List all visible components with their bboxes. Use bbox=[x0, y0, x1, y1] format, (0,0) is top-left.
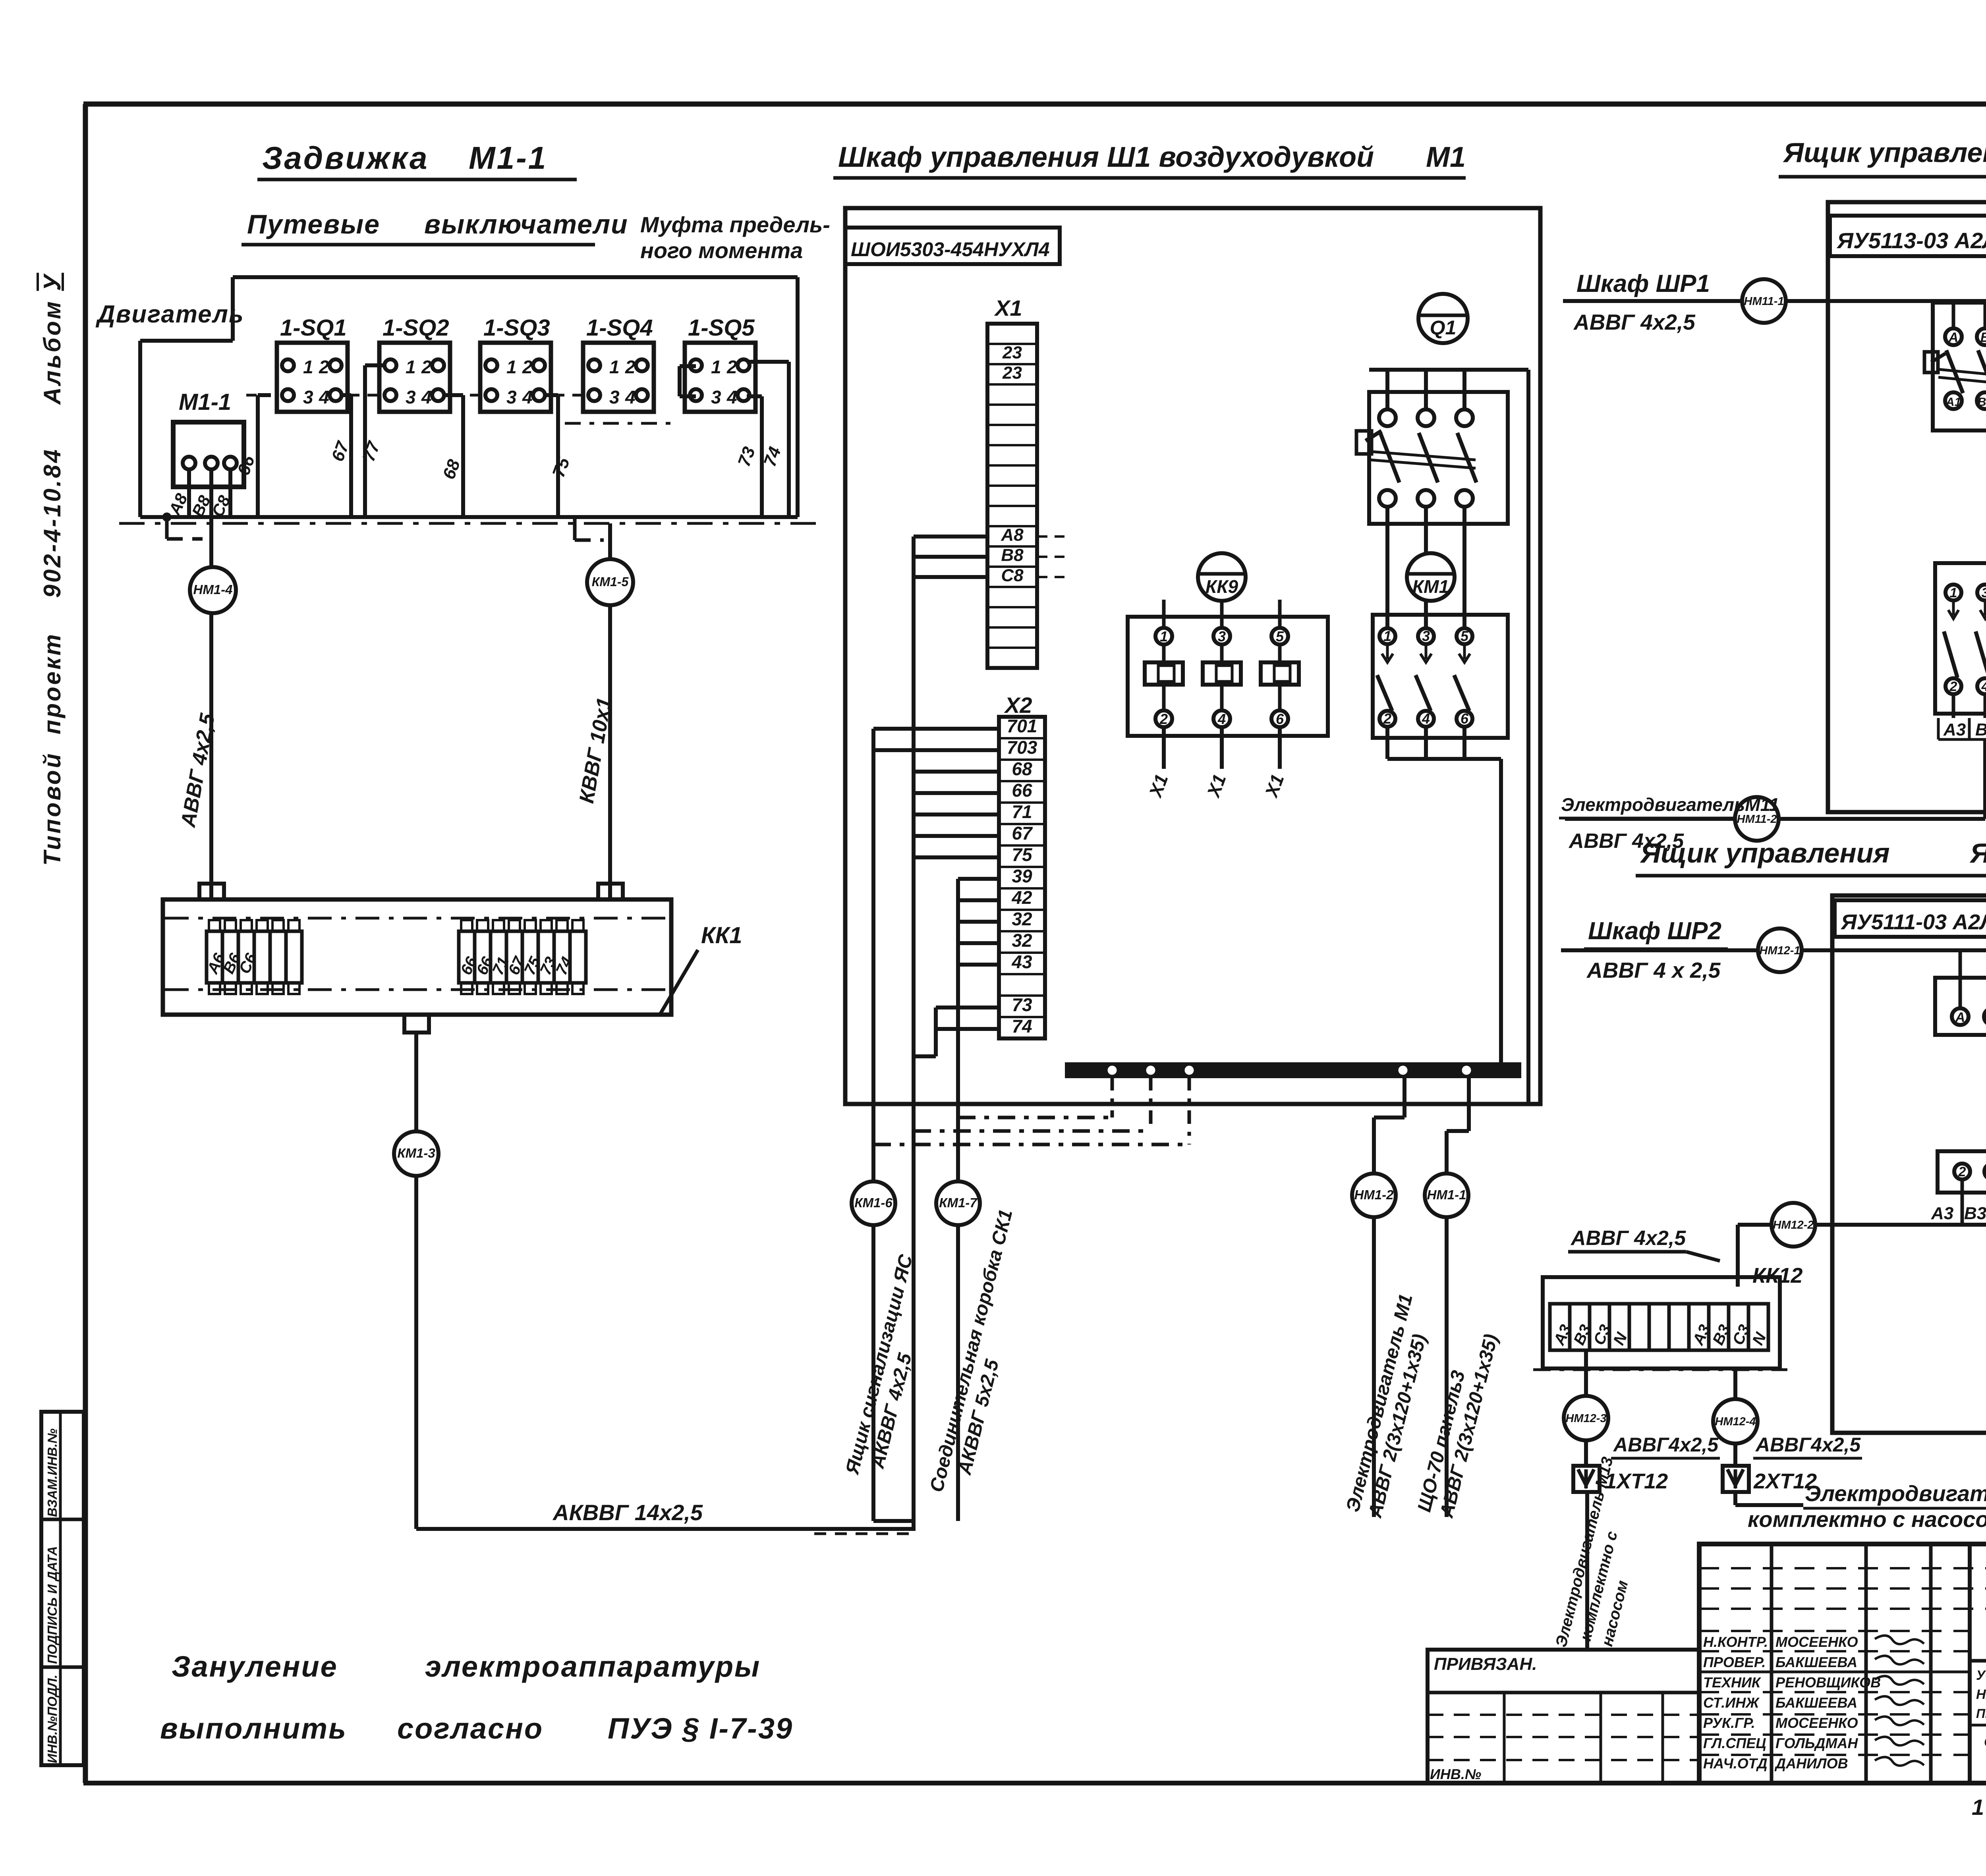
wire B8 / KM1-4 drop bbox=[209, 469, 213, 899]
cable marker KM1-3 bbox=[414, 1033, 418, 1529]
svg-text:2: 2 bbox=[421, 357, 432, 377]
thermal relay KK9 box bbox=[1128, 617, 1328, 736]
svg-text:Зануление: Зануление bbox=[172, 1650, 338, 1683]
svg-text:ПРОВЕР.: ПРОВЕР. bbox=[1703, 1654, 1766, 1670]
svg-text:2: 2 bbox=[1159, 711, 1168, 727]
KM pole 2 bbox=[1977, 585, 1986, 600]
svg-text:32: 32 bbox=[1012, 930, 1032, 951]
svg-text:электроаппаратуры: электроаппаратуры bbox=[425, 1650, 761, 1683]
privyazan box bbox=[1428, 1650, 1699, 1783]
svg-text:32: 32 bbox=[1012, 909, 1032, 929]
svg-text:М1-1: М1-1 bbox=[179, 389, 231, 415]
wire C8 bbox=[228, 469, 232, 515]
svg-text:Ящик управления: Ящик управления bbox=[1783, 137, 1986, 168]
svg-text:1: 1 bbox=[1160, 628, 1168, 645]
svg-text:С8: С8 bbox=[1001, 566, 1024, 585]
svg-text:1-SQ1: 1-SQ1 bbox=[280, 315, 347, 341]
svg-text:ГЛ.СПЕЦ: ГЛ.СПЕЦ bbox=[1703, 1735, 1766, 1751]
svg-text:5: 5 bbox=[1276, 628, 1284, 645]
wire 75 bbox=[545, 393, 558, 397]
wire to Электродвигатель М12 bbox=[1733, 1492, 1737, 1505]
svg-text:4: 4 bbox=[421, 387, 432, 407]
svg-text:НМ12-3: НМ12-3 bbox=[1565, 1412, 1606, 1425]
svg-text:1: 1 bbox=[1383, 628, 1391, 644]
svg-text:Путевые: Путевые bbox=[247, 209, 380, 239]
wire: top bus of limit-switch loop bbox=[233, 275, 798, 279]
vertical control-cable wire bbox=[912, 537, 916, 1529]
X2 incoming wires bbox=[873, 727, 999, 731]
svg-text:1-SQ3: 1-SQ3 bbox=[483, 315, 550, 341]
svg-text:Я12: Я12 bbox=[1969, 838, 1986, 869]
contactor KM1 box bbox=[1373, 615, 1508, 738]
svg-text:2: 2 bbox=[319, 357, 329, 377]
type label ЯУ5113-03А2Л bbox=[1830, 216, 1986, 256]
svg-text:РЕНОВЩИКОВ: РЕНОВЩИКОВ bbox=[1775, 1674, 1881, 1691]
type label ЯУ5111-03А2Л bbox=[1835, 900, 1986, 937]
svg-text:4: 4 bbox=[726, 387, 737, 407]
KM contact box bbox=[1935, 563, 1986, 714]
wire: bottom bus (solid) bbox=[140, 515, 798, 519]
left stamp column boxes bbox=[41, 1412, 84, 1765]
svg-text:3: 3 bbox=[406, 387, 416, 407]
cable markers below cabinet bbox=[852, 1181, 895, 1225]
svg-text:РУК.ГР.: РУК.ГР. bbox=[1703, 1715, 1755, 1731]
svg-text:1-SQ4: 1-SQ4 bbox=[586, 315, 653, 341]
svg-text:ТЕХНИК: ТЕХНИК bbox=[1703, 1674, 1762, 1691]
svg-text:БАКШЕЕВА: БАКШЕЕВА bbox=[1775, 1695, 1857, 1711]
control box YA12 outline bbox=[1832, 896, 1986, 1433]
svg-text:Шкаф ШР1: Шкаф ШР1 bbox=[1576, 270, 1710, 297]
svg-text:Н.КОНТР.: Н.КОНТР. bbox=[1703, 1634, 1768, 1650]
svg-text:ЯУ5111-03 А2Л: ЯУ5111-03 А2Л bbox=[1840, 910, 1986, 934]
drawing frame border bbox=[83, 104, 88, 1783]
left vertical wires in cabinet bbox=[871, 729, 875, 1521]
svg-text:Х1: Х1 bbox=[994, 295, 1022, 320]
svg-text:ГОЛЬДМАН: ГОЛЬДМАН bbox=[1775, 1735, 1858, 1751]
svg-text:комплектно с насосом: комплектно с насосом bbox=[1748, 1507, 1986, 1532]
svg-text:В3: В3 bbox=[1975, 720, 1986, 739]
svg-text:Ящик управления: Ящик управления bbox=[1640, 838, 1890, 869]
svg-text:ного момента: ного момента bbox=[640, 238, 803, 263]
svg-text:1: 1 bbox=[711, 357, 721, 377]
KM pole 1 bbox=[1945, 585, 1961, 600]
svg-text:4: 4 bbox=[625, 387, 636, 407]
KK9 pole 3 bbox=[1271, 628, 1288, 645]
KM box YA12 bbox=[1938, 1151, 1986, 1193]
svg-text:Задвижка: Задвижка bbox=[262, 140, 429, 176]
1-SQ5 left jumper bbox=[680, 364, 696, 368]
control box YA11 outline bbox=[1828, 202, 1986, 812]
svg-text:ПРИВЯЗАН.: ПРИВЯЗАН. bbox=[1434, 1654, 1537, 1674]
cabinet Ш1 outline bbox=[845, 208, 1540, 1104]
Q1 wires to top bus bbox=[1369, 368, 1528, 372]
svg-text:Х2: Х2 bbox=[1004, 693, 1032, 718]
svg-text:А8: А8 bbox=[1001, 525, 1024, 545]
Q1 poles bbox=[1379, 409, 1396, 426]
svg-text:Муфта предель-: Муфта предель- bbox=[640, 212, 830, 237]
mechanical coupling dashes bbox=[349, 394, 378, 397]
svg-text:3: 3 bbox=[303, 387, 313, 407]
svg-text:КМ1-5: КМ1-5 bbox=[592, 575, 629, 589]
QF box YA12 bbox=[1935, 978, 1986, 1035]
KK1 bottom tab bbox=[404, 1015, 429, 1033]
svg-text:В3: В3 bbox=[1964, 1204, 1986, 1223]
connector 2ХТ12 bbox=[1723, 1466, 1749, 1492]
wire 73 bbox=[747, 394, 762, 398]
svg-text:42: 42 bbox=[1011, 887, 1032, 908]
svg-text:ПУЭ § I-7-39: ПУЭ § I-7-39 bbox=[608, 1712, 793, 1745]
cable run АКВВГ 14х2,5 bbox=[416, 1527, 916, 1531]
project name cell bbox=[1970, 1659, 1986, 1663]
svg-text:АВВГ 4х2,5: АВВГ 4х2,5 bbox=[1573, 310, 1696, 334]
svg-text:Двигатель: Двигатель bbox=[95, 301, 244, 328]
svg-text:НА КАРКАСНО-ЗАСЫПНЫХ ФИЛЬТРАХ: НА КАРКАСНО-ЗАСЫПНЫХ ФИЛЬТРАХ bbox=[1976, 1687, 1986, 1702]
QF linkage bar bbox=[1938, 369, 1986, 378]
svg-text:75: 75 bbox=[1012, 844, 1033, 865]
svg-text:КМ1-7: КМ1-7 bbox=[939, 1195, 978, 1210]
wire: bottom bus (dash-dot shield) bbox=[119, 522, 818, 525]
svg-text:4: 4 bbox=[522, 387, 533, 407]
svg-text:Шкаф управления Ш1 воздуходувк: Шкаф управления Ш1 воздуходувкой bbox=[838, 141, 1374, 173]
svg-text:выполнить: выполнить bbox=[160, 1712, 347, 1745]
svg-text:АКВВГ 14х2,5: АКВВГ 14х2,5 bbox=[552, 1500, 703, 1525]
svg-text:СХЕМА ЭЛЕКТРИЧЕСКАЯ СОЕДИНЕНИЙ: СХЕМА ЭЛЕКТРИЧЕСКАЯ СОЕДИНЕНИЙ bbox=[1984, 1734, 1986, 1750]
svg-text:А3: А3 bbox=[1943, 720, 1966, 739]
KK1 left terminal group bbox=[207, 931, 222, 983]
svg-text:5: 5 bbox=[1461, 628, 1469, 644]
svg-text:КМ1-3: КМ1-3 bbox=[397, 1146, 435, 1160]
wire 67 bbox=[342, 393, 351, 397]
svg-text:М1-1: М1-1 bbox=[469, 140, 547, 176]
svg-text:2: 2 bbox=[522, 357, 533, 377]
svg-text:ИНВ.№: ИНВ.№ bbox=[1430, 1766, 1481, 1782]
svg-text:1-SQ2: 1-SQ2 bbox=[383, 315, 449, 341]
svg-text:ЭлектродвигательМ11: ЭлектродвигательМ11 bbox=[1561, 794, 1779, 815]
wire from КМ12-2 to KK12 bbox=[1738, 1223, 1772, 1227]
thermal junction box KK1 bbox=[163, 899, 671, 1015]
svg-text:703: 703 bbox=[1007, 737, 1037, 758]
svg-text:39: 39 bbox=[1012, 866, 1032, 886]
svg-text:3: 3 bbox=[609, 387, 620, 407]
wire 66 bbox=[258, 393, 271, 397]
bottom jog connecting drops bbox=[873, 1519, 914, 1523]
grounding busbar bbox=[1066, 1063, 1520, 1077]
svg-text:НМ12-1: НМ12-1 bbox=[1759, 944, 1800, 957]
connector 1ХТ12 bbox=[1573, 1466, 1600, 1492]
svg-text:КК9: КК9 bbox=[1206, 576, 1238, 597]
wires Q1 to KM1 bbox=[1385, 507, 1389, 628]
svg-text:ПОДПИСЬ И ДАТА: ПОДПИСЬ И ДАТА bbox=[45, 1546, 60, 1664]
svg-text:ВЗАМ.ИНВ.№: ВЗАМ.ИНВ.№ bbox=[45, 1428, 60, 1517]
terminal strip X1 bbox=[987, 324, 1037, 668]
svg-text:В1: В1 bbox=[1978, 396, 1986, 409]
svg-text:КК1: КК1 bbox=[701, 923, 742, 948]
KM1 pole 1 bbox=[1379, 628, 1395, 644]
svg-text:1-SQ5: 1-SQ5 bbox=[688, 315, 755, 341]
svg-text:МОСЕЕНКО: МОСЕЕНКО bbox=[1775, 1715, 1858, 1731]
A3 B3 C3 labels bbox=[1952, 694, 1955, 718]
svg-text:3: 3 bbox=[1218, 628, 1226, 645]
M1-1 terminals A8 B8 C8 bbox=[183, 457, 195, 469]
svg-text:А3: А3 bbox=[1931, 1204, 1953, 1223]
svg-text:В8: В8 bbox=[1001, 546, 1024, 565]
KK1 right terminal group bbox=[459, 931, 475, 983]
svg-text:НМ1-2: НМ1-2 bbox=[1354, 1187, 1394, 1202]
svg-text:КМ1: КМ1 bbox=[1412, 576, 1449, 597]
QF pole В bbox=[1984, 301, 1986, 328]
QF pole А bbox=[1952, 301, 1955, 328]
svg-text:2: 2 bbox=[726, 357, 737, 377]
wire 68 bbox=[445, 393, 463, 397]
feeder wire into YA12 bbox=[1561, 948, 1986, 952]
svg-text:19995-03: 19995-03 bbox=[1972, 1795, 1986, 1820]
wire A8 bbox=[187, 469, 191, 515]
svg-text:3: 3 bbox=[711, 387, 721, 407]
svg-text:НМ12-2: НМ12-2 bbox=[1773, 1219, 1814, 1231]
svg-text:23: 23 bbox=[1002, 343, 1022, 363]
svg-text:701: 701 bbox=[1007, 716, 1037, 736]
X1 incoming wires А8 В8 С8 bbox=[914, 535, 987, 538]
svg-text:БАКШЕЕВА: БАКШЕЕВА bbox=[1775, 1654, 1857, 1670]
svg-text:Q1: Q1 bbox=[1430, 317, 1457, 339]
name rows bbox=[1699, 1671, 1970, 1673]
Q1 linkage bar bbox=[1370, 452, 1476, 460]
stub near KM1-5 bbox=[573, 517, 577, 540]
wire: right drop of loop bbox=[796, 277, 800, 517]
svg-text:68: 68 bbox=[1012, 759, 1032, 779]
svg-text:Шкаф ШР2: Шкаф ШР2 bbox=[1588, 917, 1721, 945]
svg-text:43: 43 bbox=[1011, 952, 1032, 972]
svg-text:3: 3 bbox=[1982, 585, 1986, 600]
svg-text:4: 4 bbox=[1217, 711, 1226, 727]
svg-text:согласно: согласно bbox=[397, 1712, 543, 1745]
wire: left step of loop bbox=[231, 277, 235, 341]
svg-text:4: 4 bbox=[1981, 679, 1986, 694]
KK9 pole 1 bbox=[1155, 628, 1172, 645]
svg-text:А1: А1 bbox=[1945, 396, 1961, 409]
title block vertical dividers bbox=[1770, 1544, 1773, 1783]
svg-text:1: 1 bbox=[303, 357, 313, 377]
title block outline bbox=[1699, 1544, 1986, 1783]
svg-text:23: 23 bbox=[1002, 363, 1022, 383]
svg-text:Типовой проект 902-4-10.84: Типовой проект 902-4-10.84 Альбом У bbox=[39, 273, 66, 866]
breaker Q1 symbol bbox=[1418, 294, 1468, 343]
svg-text:4: 4 bbox=[319, 387, 329, 407]
wire 74 bbox=[747, 360, 789, 364]
svg-text:АВВГ 4х2,5: АВВГ 4х2,5 bbox=[1570, 1227, 1686, 1250]
svg-text:ШОИ5303-454НУХЛ4: ШОИ5303-454НУХЛ4 bbox=[851, 238, 1050, 261]
svg-text:2: 2 bbox=[625, 357, 636, 377]
svg-text:2: 2 bbox=[1383, 710, 1391, 727]
svg-text:1: 1 bbox=[406, 357, 416, 377]
KM1 pole 2 bbox=[1418, 628, 1434, 644]
svg-text:74: 74 bbox=[1012, 1016, 1032, 1036]
motor wire to КН11-2 bbox=[1983, 739, 1986, 819]
svg-text:НМ1-4: НМ1-4 bbox=[193, 582, 232, 597]
title block top dashed rows bbox=[1699, 1567, 1986, 1569]
contactor KM1 symbol bbox=[1407, 553, 1455, 601]
svg-text:2: 2 bbox=[1958, 1164, 1966, 1179]
svg-text:1: 1 bbox=[609, 357, 620, 377]
junction on bus bbox=[162, 513, 171, 521]
svg-text:ЯУ5113-03 А2Л: ЯУ5113-03 А2Л bbox=[1836, 228, 1986, 253]
cable marker KM1-5 bbox=[608, 523, 612, 899]
feeder wire into YA11 bbox=[1563, 299, 1986, 303]
Q1 handle bbox=[1366, 431, 1381, 441]
svg-text:3: 3 bbox=[1422, 628, 1430, 644]
KK1 top cable tabs bbox=[199, 884, 224, 899]
cable marker KM1-4 bbox=[190, 567, 236, 613]
wire 77 bbox=[365, 363, 384, 367]
svg-text:В: В bbox=[1980, 330, 1986, 345]
thermal block KK12 bbox=[1543, 1277, 1780, 1368]
KM1 pole 3 bbox=[1457, 628, 1472, 644]
KK9 pole 2 bbox=[1213, 628, 1230, 645]
svg-text:73: 73 bbox=[1012, 994, 1032, 1015]
QF contact box bbox=[1933, 303, 1986, 430]
svg-text:ДАНИЛОВ: ДАНИЛОВ bbox=[1774, 1755, 1848, 1772]
cable markers НМ12-3 КМ12-4 bbox=[1584, 1350, 1588, 1466]
svg-text:1: 1 bbox=[506, 357, 517, 377]
svg-text:УСТАНОВКА ДООЧИСТКИ СТОЧНЫХ ВО: УСТАНОВКА ДООЧИСТКИ СТОЧНЫХ ВОД bbox=[1976, 1668, 1986, 1683]
svg-text:СТ.ИНЖ: СТ.ИНЖ bbox=[1703, 1695, 1760, 1711]
svg-text:КМ1-6: КМ1-6 bbox=[854, 1195, 893, 1210]
svg-text:АВВГ4х2,5: АВВГ4х2,5 bbox=[1613, 1434, 1719, 1456]
svg-text:6: 6 bbox=[1276, 711, 1284, 727]
svg-text:ИНВ.№ПОДЛ.: ИНВ.№ПОДЛ. bbox=[45, 1675, 60, 1763]
svg-text:71: 71 bbox=[1012, 801, 1032, 822]
svg-text:Электродвигатель М12: Электродвигатель М12 bbox=[1805, 1481, 1986, 1506]
dash-dot drops from busbar bbox=[1111, 1077, 1114, 1117]
svg-text:3: 3 bbox=[506, 387, 517, 407]
svg-text:А: А bbox=[1955, 1010, 1965, 1025]
wires below KM1 bbox=[1385, 727, 1389, 759]
breaker Q1 contact box bbox=[1369, 392, 1508, 524]
terminal strip X2 bbox=[999, 717, 1045, 1038]
wire КМ12-2 bbox=[1812, 1223, 1986, 1227]
svg-text:АВВГ4х2,5: АВВГ4х2,5 bbox=[1755, 1434, 1861, 1456]
svg-text:НМ12-4: НМ12-4 bbox=[1715, 1415, 1756, 1428]
motor M1-1 box bbox=[173, 422, 244, 487]
svg-text:НАЧ.ОТД: НАЧ.ОТД bbox=[1703, 1755, 1768, 1772]
wire НМ12-3 down with rotated label bbox=[1585, 1492, 1589, 1650]
svg-text:выключатели: выключатели bbox=[424, 209, 628, 239]
svg-text:АВВГ 4 х 2,5: АВВГ 4 х 2,5 bbox=[1586, 958, 1721, 982]
thermal relay KK9 symbol bbox=[1198, 553, 1246, 601]
svg-text:МОСЕЕНКО: МОСЕЕНКО bbox=[1775, 1634, 1858, 1650]
svg-text:66: 66 bbox=[1012, 780, 1032, 801]
svg-text:А: А bbox=[1948, 330, 1959, 345]
svg-text:4: 4 bbox=[1422, 710, 1430, 727]
wires to НМ1-2 and НМ1-1 bbox=[1403, 1077, 1406, 1117]
svg-text:1: 1 bbox=[1950, 585, 1957, 600]
svg-text:6: 6 bbox=[1461, 710, 1469, 727]
svg-text:НМ1-1: НМ1-1 bbox=[1427, 1187, 1466, 1202]
cabinet type label ШОИ5303-454НУХЛ4 bbox=[845, 228, 1060, 264]
svg-text:НМ11-1: НМ11-1 bbox=[1744, 295, 1784, 308]
svg-text:67: 67 bbox=[1012, 823, 1033, 843]
svg-text:2: 2 bbox=[1949, 679, 1957, 694]
svg-text:1ХТ12: 1ХТ12 bbox=[1605, 1469, 1668, 1493]
cabinet right-side wire bbox=[1526, 370, 1530, 1104]
svg-text:М1: М1 bbox=[1426, 141, 1466, 173]
svg-text:ПРОИЗВОДИТЕЛЬНОСТЬЮ 100 ТЫС.М/: ПРОИЗВОДИТЕЛЬНОСТЬЮ 100 ТЫС.М/СУТК bbox=[1976, 1706, 1986, 1721]
